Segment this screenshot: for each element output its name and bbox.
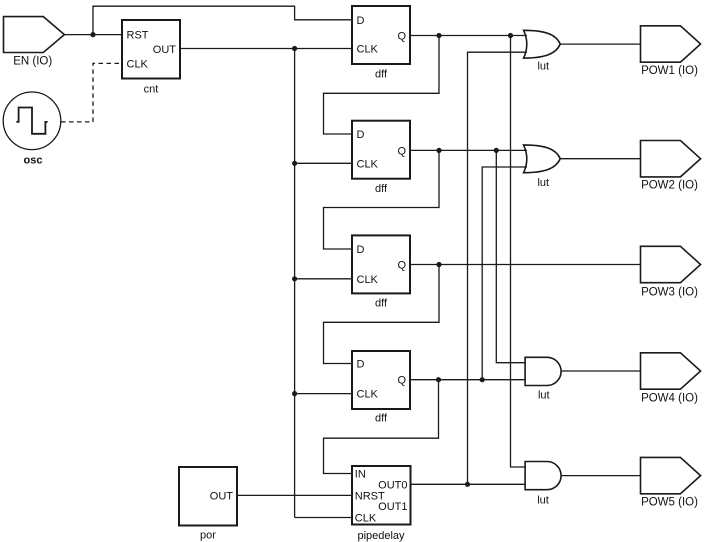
svg-text:dff: dff [375,298,388,310]
node Q3 feedback [436,262,441,267]
svg-text:CLK: CLK [357,389,379,401]
svg-text:POW4 (IO): POW4 (IO) [641,392,698,404]
svg-text:lut: lut [538,389,550,401]
node CLK branch dff3 [292,276,297,281]
oscillator osc [3,92,61,150]
node Q1 to lut5 [508,33,513,38]
wire OUT0 trunk to lut1 bottom input [468,52,528,484]
output pin POW3 (IO) [641,246,701,282]
node Q2 feedback [436,148,441,153]
svg-text:EN (IO): EN (IO) [13,56,52,68]
wire CLK branch to dff4 [295,393,352,395]
lut2 OR gate [524,145,561,173]
wire CLK branch to dff3 [295,278,352,280]
wire EN to cnt RST [64,34,122,36]
node CLK branch dff2 [292,161,297,166]
svg-text:dff: dff [375,183,388,195]
pipedelay block [352,466,411,525]
wire lut5 to POW5 [561,475,640,477]
svg-text:Q: Q [397,375,406,387]
node CLK trunk top [292,46,297,51]
svg-text:lut: lut [537,61,549,73]
wire feedback Q4 to pipedelay IN [324,380,439,474]
svg-text:OUT0: OUT0 [378,479,407,491]
svg-text:OUT: OUT [153,44,177,56]
wire EN junction up over to dff1 D [93,6,352,34]
wire Q3 to POW3 [410,264,641,266]
svg-text:por: por [200,530,216,542]
svg-text:OUT1: OUT1 [378,501,407,513]
wire Q4 to lut4 [410,379,525,381]
node CLK branch dff4 [292,391,297,396]
svg-text:Q: Q [397,31,406,43]
svg-text:lut: lut [537,177,549,189]
svg-text:dff: dff [375,68,388,80]
wire lut1 to POW1 [560,43,640,45]
svg-text:CLK: CLK [355,513,377,525]
wire CLK trunk [294,49,296,518]
lut4 AND gate [525,357,561,385]
output pin POW5 (IO) [641,457,701,493]
svg-text:POW1 (IO): POW1 (IO) [641,65,698,77]
svg-text:POW3 (IO): POW3 (IO) [641,286,698,298]
svg-text:RST: RST [127,30,149,42]
svg-text:IN: IN [355,469,366,481]
svg-text:CLK: CLK [357,158,379,170]
svg-text:osc: osc [24,154,43,166]
node Q4 to lut2 [480,377,485,382]
svg-text:CLK: CLK [127,58,149,70]
svg-text:OUT: OUT [210,490,234,502]
output pin POW4 (IO) [641,353,701,389]
output pin POW1 (IO) [641,26,701,62]
lut5 AND gate [525,462,561,490]
svg-text:Q: Q [397,260,406,272]
node Q4 feedback [436,377,441,382]
wire Q2 trunk to lut4 top input [496,150,525,362]
flip-flop dff3 [352,235,410,293]
counter cnt [122,20,180,79]
svg-text:cnt: cnt [144,84,159,96]
flip-flop dff1 [352,6,410,64]
wire feedback Q1 to dff2 D [324,36,440,135]
svg-text:CLK: CLK [357,43,379,55]
wire CLK branch to dff2 [295,162,352,164]
wire pipedelay OUT0 to lut5 [411,483,526,485]
node EN junction [90,32,95,37]
svg-text:D: D [357,15,365,27]
wire CLK to pipedelay [295,517,352,519]
wire cnt OUT to dff1 CLK [180,48,352,50]
svg-text:dff: dff [375,413,388,425]
svg-text:D: D [357,129,365,141]
flip-flop dff4 [352,351,410,409]
wire lut4 to POW4 [561,370,640,372]
wire lut2 to POW2 [560,158,640,160]
wire feedback Q3 to dff4 D [324,265,440,364]
wire feedback Q2 to dff3 D [324,150,440,249]
svg-text:Q: Q [397,145,406,157]
wire Q1 trunk to lut5 top input [511,36,526,468]
flip-flop dff2 [352,121,410,179]
svg-text:pipedelay: pipedelay [357,530,405,542]
svg-text:D: D [357,359,365,371]
wire por OUT to pipedelay NRST [237,494,352,496]
wire osc to cnt CLK (dashed) [61,63,122,122]
input pin EN (IO) [4,17,65,53]
lut1 OR gate [524,30,561,58]
svg-text:D: D [357,244,365,256]
output pin POW2 (IO) [641,141,701,177]
node Q1 feedback [436,33,441,38]
wire Q2 to lut2 [410,149,527,151]
node OUT0 to lut1 [465,482,470,487]
svg-text:lut: lut [537,494,549,506]
svg-text:POW5 (IO): POW5 (IO) [641,497,698,509]
node Q2 to lut4 [494,148,499,153]
wire Q4 trunk to lut2 bottom input [482,167,527,380]
svg-text:CLK: CLK [357,274,379,286]
wire Q1 to lut1 [410,35,527,37]
por block [179,467,237,526]
svg-text:POW2 (IO): POW2 (IO) [641,180,698,192]
